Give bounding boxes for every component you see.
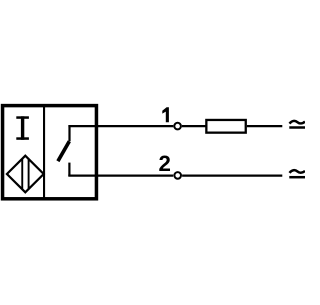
switch movable arm (NO contact)	[58, 141, 69, 161]
internal divider wall	[43, 106, 45, 199]
terminal circle 2	[174, 172, 181, 179]
wire: terminal 2 to AC source 2	[182, 175, 282, 177]
AC supply symbol bottom (tilde over bar)	[289, 170, 305, 177]
switch bottom contact stub	[68, 163, 70, 176]
sensor body box U1	[3, 106, 97, 199]
label 1	[162, 107, 169, 122]
wire: switch top line to terminal 1	[68, 125, 173, 127]
proximity sensor diamond symbol	[7, 156, 44, 193]
wire: terminal 1 to resistor	[182, 125, 206, 127]
terminal circle 1	[174, 123, 181, 130]
inductive sensing label I	[16, 116, 29, 140]
wire: switch bottom line to terminal 2	[68, 175, 173, 177]
diamond inner right line	[28, 159, 30, 189]
diamond inner left line	[21, 159, 23, 189]
resistor R1 (load)	[206, 120, 245, 133]
wire: resistor to AC source 1	[247, 125, 282, 127]
switch fixed contact top stub	[68, 125, 70, 141]
svg-text:2: 2	[158, 151, 170, 176]
AC supply symbol top (tilde over bar)	[289, 121, 305, 128]
